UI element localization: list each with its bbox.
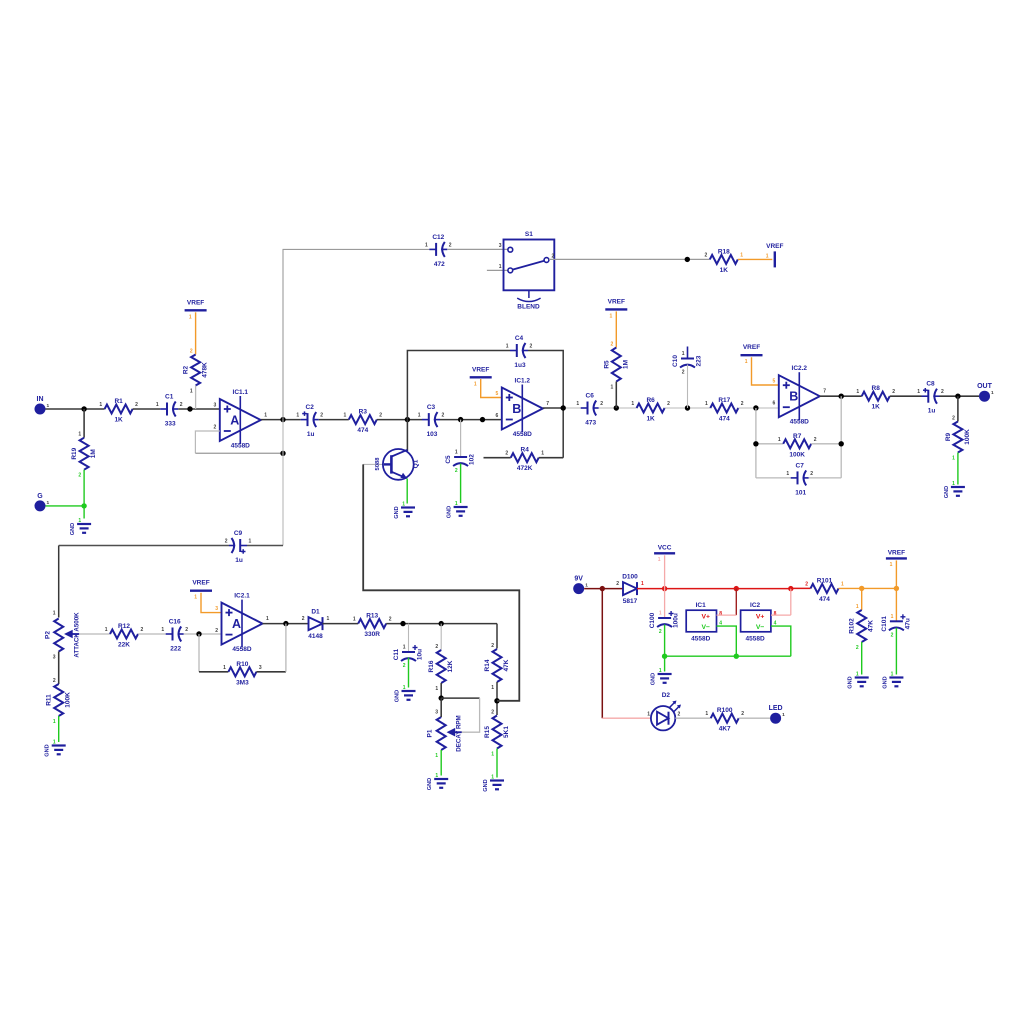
diode D100 bbox=[616, 574, 644, 606]
svg-text:1: 1 bbox=[705, 711, 708, 717]
svg-text:2: 2 bbox=[810, 471, 813, 477]
wire R15 to GND bbox=[496, 749, 498, 778]
svg-text:GND: GND bbox=[848, 676, 854, 688]
supply VREF (power) bbox=[886, 549, 907, 568]
svg-text:2: 2 bbox=[135, 402, 138, 408]
svg-text:R5: R5 bbox=[603, 360, 610, 369]
wire to R7 bbox=[756, 443, 783, 445]
svg-text:3: 3 bbox=[214, 403, 217, 409]
svg-text:2: 2 bbox=[141, 627, 144, 633]
svg-text:101: 101 bbox=[795, 489, 806, 496]
svg-text:2: 2 bbox=[892, 389, 895, 395]
wire P1 to GND bbox=[440, 750, 442, 776]
resistor R11 bbox=[46, 678, 72, 725]
op-amp IC1.2 bbox=[496, 378, 550, 439]
node collector junction bbox=[405, 417, 410, 422]
svg-text:2: 2 bbox=[379, 413, 382, 419]
svg-text:GND: GND bbox=[394, 506, 400, 518]
resistor R2 bbox=[183, 349, 209, 395]
svg-text:VREF: VREF bbox=[187, 299, 204, 306]
svg-text:1u3: 1u3 bbox=[514, 362, 526, 369]
wire rail down to IC2 V+ bbox=[790, 589, 792, 616]
ground GND C11 bbox=[395, 685, 416, 702]
wire P2 wiper to R12 bbox=[79, 633, 110, 635]
svg-text:S1: S1 bbox=[525, 231, 533, 238]
wire R7 to output column bbox=[811, 443, 841, 445]
wire IC2.1 out to D1 bbox=[263, 623, 309, 625]
wire output column down to C9 bbox=[282, 420, 284, 546]
svg-text:1: 1 bbox=[264, 413, 267, 419]
svg-text:2: 2 bbox=[530, 344, 533, 350]
node VREF junction 2 bbox=[894, 586, 899, 591]
svg-text:R3: R3 bbox=[359, 409, 368, 416]
svg-text:22K: 22K bbox=[118, 642, 130, 649]
capacitor C1 bbox=[156, 394, 183, 428]
resistor R9 bbox=[945, 416, 971, 462]
svg-text:C1: C1 bbox=[165, 394, 174, 401]
svg-text:P1: P1 bbox=[427, 729, 434, 737]
svg-text:2: 2 bbox=[53, 678, 56, 684]
supply VCC bbox=[654, 544, 675, 563]
svg-text:GND: GND bbox=[483, 779, 489, 791]
svg-text:2: 2 bbox=[435, 644, 438, 650]
svg-text:3: 3 bbox=[215, 606, 218, 612]
capacitor C100 bbox=[649, 611, 680, 636]
wire C1 to IC1.1 pin3 bbox=[178, 408, 220, 410]
svg-text:1: 1 bbox=[659, 668, 662, 674]
pad IN bbox=[35, 396, 50, 415]
svg-text:1: 1 bbox=[766, 254, 769, 260]
wire C100 to ground rail bbox=[664, 625, 666, 657]
svg-text:223: 223 bbox=[696, 355, 703, 366]
svg-text:GND: GND bbox=[882, 676, 888, 688]
pad OUT bbox=[977, 383, 994, 402]
node IC2.2 output bbox=[839, 394, 844, 399]
svg-text:1: 1 bbox=[327, 616, 330, 622]
ground GND C5 bbox=[447, 501, 468, 518]
node C1/R2 junction bbox=[187, 406, 192, 411]
svg-text:1: 1 bbox=[53, 719, 56, 725]
potentiometer P2 (ATTACK) bbox=[45, 611, 81, 661]
svg-text:1: 1 bbox=[841, 581, 844, 587]
op-amp IC2.1 bbox=[215, 593, 269, 654]
capacitor C4 bbox=[506, 335, 533, 369]
wire R11 to GND bbox=[58, 716, 60, 742]
svg-text:1: 1 bbox=[403, 685, 406, 691]
svg-text:1: 1 bbox=[455, 501, 458, 507]
svg-text:1: 1 bbox=[631, 401, 634, 407]
ground GND input bbox=[70, 518, 91, 535]
svg-text:1: 1 bbox=[99, 402, 102, 408]
svg-text:1u: 1u bbox=[235, 557, 243, 564]
wire rail down to IC1 V+ bbox=[735, 589, 737, 616]
svg-text:VCC: VCC bbox=[658, 544, 672, 551]
svg-text:47K: 47K bbox=[868, 620, 875, 632]
svg-text:2: 2 bbox=[491, 710, 494, 716]
wire envelope to Q1 base bbox=[363, 464, 519, 700]
svg-text:1K: 1K bbox=[720, 267, 729, 274]
svg-text:C7: C7 bbox=[796, 462, 805, 469]
svg-text:4558D: 4558D bbox=[513, 431, 532, 438]
svg-text:IC1: IC1 bbox=[696, 602, 707, 609]
node ground rail 1 bbox=[662, 654, 667, 659]
svg-text:103: 103 bbox=[427, 431, 438, 438]
wire IC1.1 out to C2 bbox=[261, 419, 301, 421]
svg-text:1K: 1K bbox=[646, 416, 655, 423]
svg-text:1: 1 bbox=[53, 740, 56, 746]
wire to R4 bbox=[484, 457, 511, 459]
svg-text:3: 3 bbox=[53, 655, 56, 661]
node IC2.1 inverting input bbox=[196, 631, 201, 636]
svg-text:3M3: 3M3 bbox=[236, 679, 249, 686]
svg-text:5817: 5817 bbox=[623, 598, 638, 605]
svg-text:4558D: 4558D bbox=[746, 636, 765, 643]
ground GND power bbox=[651, 668, 672, 685]
svg-text:100K: 100K bbox=[65, 692, 72, 708]
wire R5 to line bbox=[615, 382, 617, 409]
svg-text:478K: 478K bbox=[202, 362, 209, 378]
wire IC1.1 feedback bbox=[195, 431, 219, 453]
svg-text:1: 1 bbox=[856, 672, 859, 678]
wire node to C101 bbox=[895, 588, 897, 621]
wire C10 to line bbox=[687, 365, 689, 409]
wire to D2 anode bbox=[602, 717, 651, 719]
resistor R12 bbox=[105, 623, 144, 649]
svg-text:R6: R6 bbox=[646, 397, 655, 404]
svg-text:2: 2 bbox=[616, 581, 619, 587]
wire VCC rail bbox=[637, 588, 791, 590]
svg-text:1: 1 bbox=[740, 252, 743, 258]
svg-text:V−: V− bbox=[756, 624, 765, 631]
wire junction to R9 bbox=[957, 396, 959, 421]
wire C6 to R6 bbox=[599, 407, 637, 409]
node R14/R15 junction bbox=[494, 698, 499, 703]
svg-text:8: 8 bbox=[719, 611, 722, 617]
svg-text:R15: R15 bbox=[484, 726, 491, 738]
svg-text:6: 6 bbox=[773, 401, 776, 407]
wire to IC1 V+ pin 8 bbox=[717, 614, 737, 616]
svg-text:3: 3 bbox=[435, 710, 438, 716]
node IC2.1 output bbox=[283, 621, 288, 626]
supply VREF (IC2.2) bbox=[741, 344, 763, 365]
wire C3 to IC1.2 pin 6 bbox=[440, 419, 502, 421]
svg-text:1: 1 bbox=[856, 604, 859, 610]
svg-text:R101: R101 bbox=[817, 577, 833, 584]
svg-text:2: 2 bbox=[302, 616, 305, 622]
resistor R8 bbox=[856, 385, 895, 411]
svg-text:2: 2 bbox=[442, 413, 445, 419]
svg-text:C3: C3 bbox=[427, 404, 436, 411]
resistor R17 bbox=[705, 397, 744, 423]
wire R19 to GND net bbox=[83, 470, 85, 519]
svg-text:1: 1 bbox=[194, 595, 197, 601]
supply VREF (IC1.2) bbox=[470, 366, 492, 387]
wire node to R102 bbox=[861, 588, 863, 610]
wire to C6 bbox=[563, 407, 581, 409]
svg-text:1: 1 bbox=[506, 344, 509, 350]
wire IC2.2 out to R8 bbox=[820, 395, 862, 397]
svg-text:7: 7 bbox=[546, 401, 549, 407]
svg-text:B: B bbox=[512, 402, 521, 416]
svg-text:2: 2 bbox=[215, 628, 218, 634]
svg-text:D100: D100 bbox=[622, 574, 638, 581]
svg-text:P2: P2 bbox=[45, 631, 52, 639]
wire C4 to output column bbox=[528, 351, 563, 458]
svg-text:BLEND: BLEND bbox=[517, 304, 540, 311]
wire Q1 base bbox=[363, 463, 385, 465]
svg-text:1: 1 bbox=[641, 581, 644, 587]
svg-text:1: 1 bbox=[435, 753, 438, 759]
svg-text:C16: C16 bbox=[169, 619, 181, 626]
svg-text:GND: GND bbox=[447, 506, 453, 518]
capacitor C2 bbox=[296, 404, 323, 438]
svg-text:C2: C2 bbox=[306, 404, 315, 411]
wire junction to R16 bbox=[440, 624, 442, 650]
svg-text:100K: 100K bbox=[789, 451, 805, 458]
svg-text:7: 7 bbox=[823, 389, 826, 395]
svg-text:1u: 1u bbox=[307, 431, 315, 438]
pad G bbox=[35, 493, 50, 512]
node ground junction bbox=[81, 503, 86, 508]
wire junction to C5 bbox=[460, 420, 462, 457]
svg-text:GND: GND bbox=[395, 690, 401, 702]
svg-text:4148: 4148 bbox=[308, 633, 323, 640]
svg-text:222: 222 bbox=[170, 646, 181, 653]
capacitor C101 bbox=[881, 614, 912, 639]
svg-text:2: 2 bbox=[741, 401, 744, 407]
resistor R18 bbox=[705, 248, 744, 274]
resistor R101 bbox=[805, 577, 844, 603]
svg-text:1: 1 bbox=[856, 389, 859, 395]
power symbol IC2 bbox=[741, 602, 777, 643]
wire R8 to C8 bbox=[890, 395, 922, 397]
wire junction to wiper loop bbox=[441, 697, 479, 699]
wire C9 line right bbox=[247, 545, 283, 547]
supply VREF (IC2.1) bbox=[190, 580, 212, 601]
svg-text:1: 1 bbox=[53, 611, 56, 617]
svg-text:1: 1 bbox=[156, 402, 159, 408]
wire R100 to LED pad bbox=[739, 717, 770, 719]
svg-text:C4: C4 bbox=[515, 335, 524, 342]
resistor R6 bbox=[631, 397, 670, 423]
ground GND P1 bbox=[427, 773, 448, 790]
wire IN to R1 bbox=[46, 408, 105, 410]
svg-text:1: 1 bbox=[991, 390, 994, 396]
svg-text:333: 333 bbox=[165, 421, 176, 428]
resistor R4 bbox=[505, 447, 544, 473]
wire line down to R14 bbox=[496, 624, 498, 649]
wire VCC symbol to rail bbox=[664, 555, 666, 588]
svg-text:Q1: Q1 bbox=[413, 459, 420, 468]
node R7 right bbox=[839, 441, 844, 446]
svg-text:GND: GND bbox=[651, 673, 657, 685]
svg-text:1: 1 bbox=[474, 381, 477, 387]
resistor R10 bbox=[223, 661, 262, 687]
svg-text:R10: R10 bbox=[236, 661, 248, 668]
wire rail to C100 bbox=[664, 589, 666, 618]
svg-text:1: 1 bbox=[786, 471, 789, 477]
svg-text:2: 2 bbox=[891, 632, 894, 638]
wire feedback bottom bbox=[195, 452, 283, 454]
wire S1 pin 2 to R18 bbox=[549, 258, 710, 260]
svg-text:VREF: VREF bbox=[608, 298, 625, 305]
node 9V junction bbox=[600, 586, 605, 591]
wire VREF to IC2.2 pin 5 bbox=[752, 357, 779, 385]
power symbol IC1 bbox=[686, 602, 722, 643]
svg-text:8: 8 bbox=[774, 611, 777, 617]
wire up to VREF symbol bbox=[895, 560, 897, 588]
svg-text:2: 2 bbox=[667, 401, 670, 407]
svg-text:4558D: 4558D bbox=[790, 419, 809, 426]
svg-text:1M: 1M bbox=[90, 449, 97, 458]
node VCC junction 1 bbox=[662, 586, 667, 591]
svg-text:1: 1 bbox=[745, 359, 748, 365]
svg-text:4558D: 4558D bbox=[231, 443, 250, 450]
wire junction down to Q1 collector bbox=[406, 420, 408, 451]
svg-text:2: 2 bbox=[185, 627, 188, 633]
svg-text:C101: C101 bbox=[881, 616, 888, 632]
wire feedback up to output bbox=[285, 624, 287, 672]
wire C8 to OUT bbox=[940, 395, 980, 397]
wire R16 to P1 bbox=[440, 683, 442, 698]
svg-text:2: 2 bbox=[814, 437, 817, 443]
node C11 junction bbox=[400, 621, 405, 626]
svg-text:R2: R2 bbox=[183, 365, 190, 374]
svg-text:1: 1 bbox=[403, 645, 406, 651]
op-amp IC1.1 bbox=[214, 389, 268, 450]
wire R1 to C1 bbox=[133, 408, 161, 410]
svg-text:2: 2 bbox=[659, 629, 662, 635]
svg-text:A: A bbox=[230, 414, 239, 428]
svg-text:474: 474 bbox=[719, 416, 730, 423]
capacitor C9 bbox=[225, 530, 252, 564]
svg-text:1u: 1u bbox=[928, 408, 936, 415]
svg-text:9V: 9V bbox=[574, 576, 583, 583]
capacitor C16 bbox=[161, 619, 188, 653]
svg-text:1: 1 bbox=[78, 432, 81, 438]
svg-text:5: 5 bbox=[773, 379, 776, 385]
svg-text:47u: 47u bbox=[904, 618, 911, 629]
svg-text:5: 5 bbox=[496, 391, 499, 397]
svg-text:3: 3 bbox=[259, 665, 262, 671]
svg-text:C11: C11 bbox=[393, 648, 400, 660]
svg-text:1: 1 bbox=[455, 450, 458, 456]
wire IC2 V- pin 4 to ground rail bbox=[771, 626, 791, 656]
svg-text:2: 2 bbox=[705, 252, 708, 258]
svg-text:GND: GND bbox=[70, 523, 76, 535]
wire R14 to R15 bbox=[496, 682, 498, 715]
svg-text:R4: R4 bbox=[521, 447, 530, 454]
wire C12 to S1 pin 3 bbox=[447, 248, 508, 250]
wire junction to R19 bbox=[83, 409, 85, 438]
svg-text:V+: V+ bbox=[756, 614, 765, 621]
svg-text:474: 474 bbox=[819, 596, 830, 603]
svg-text:VREF: VREF bbox=[766, 243, 783, 250]
svg-text:C10: C10 bbox=[672, 355, 679, 367]
svg-text:1: 1 bbox=[585, 583, 588, 589]
svg-text:VREF: VREF bbox=[192, 580, 209, 587]
svg-text:2: 2 bbox=[403, 663, 406, 669]
svg-text:10u: 10u bbox=[417, 649, 424, 660]
svg-text:2: 2 bbox=[389, 617, 392, 623]
svg-text:VREF: VREF bbox=[472, 366, 489, 373]
wire R102 to GND bbox=[861, 642, 863, 675]
svg-text:2: 2 bbox=[741, 711, 744, 717]
ground GND C101 bbox=[882, 672, 903, 689]
svg-text:12K: 12K bbox=[447, 660, 454, 672]
resistor R102 bbox=[849, 604, 875, 651]
svg-text:1: 1 bbox=[890, 562, 893, 568]
svg-text:2: 2 bbox=[952, 416, 955, 422]
wire C2 to R3 bbox=[319, 419, 349, 421]
node input junction bbox=[81, 406, 86, 411]
resistor R5 bbox=[603, 342, 629, 391]
svg-text:1: 1 bbox=[161, 627, 164, 633]
svg-text:1: 1 bbox=[223, 665, 226, 671]
svg-text:3: 3 bbox=[499, 243, 502, 249]
node feedback junction bbox=[280, 451, 285, 456]
svg-text:2: 2 bbox=[805, 581, 808, 587]
svg-text:D1: D1 bbox=[311, 609, 320, 616]
capacitor C5 bbox=[445, 450, 476, 475]
node IC2.2 inverting input bbox=[753, 405, 758, 410]
node IC1.1 output bbox=[280, 417, 285, 422]
wire D1 to R13 bbox=[323, 623, 359, 625]
svg-text:472K: 472K bbox=[517, 465, 533, 472]
wire C7 to output column bbox=[809, 477, 842, 479]
svg-text:1: 1 bbox=[249, 539, 252, 545]
svg-text:C12: C12 bbox=[432, 234, 444, 241]
svg-text:1: 1 bbox=[491, 752, 494, 758]
node R16/P1 junction bbox=[439, 695, 444, 700]
svg-text:2: 2 bbox=[682, 370, 685, 376]
svg-text:IC2.1: IC2.1 bbox=[234, 593, 250, 600]
wire R3 to C3 bbox=[377, 419, 422, 421]
resistor R3 bbox=[344, 409, 383, 435]
svg-text:IN: IN bbox=[37, 396, 44, 403]
svg-text:R8: R8 bbox=[872, 385, 881, 392]
node VCC junction 2 bbox=[734, 586, 739, 591]
node C10 junction bbox=[685, 405, 690, 410]
wire R9 to GND bbox=[957, 453, 959, 485]
wire R6 to R17 bbox=[665, 407, 711, 409]
wire R17 to IC2.2 pin 6 bbox=[738, 407, 779, 409]
svg-text:C8: C8 bbox=[926, 381, 935, 388]
svg-text:1K: 1K bbox=[114, 417, 123, 424]
svg-text:1: 1 bbox=[491, 775, 494, 781]
resistor R100 bbox=[705, 707, 744, 733]
supply VREF (right of R18) bbox=[766, 243, 784, 267]
capacitor C12 bbox=[425, 234, 452, 268]
svg-text:1: 1 bbox=[78, 518, 81, 524]
wire to R10 bbox=[199, 671, 228, 673]
svg-text:B: B bbox=[789, 390, 798, 404]
svg-text:2: 2 bbox=[941, 389, 944, 395]
wire feedback down bbox=[198, 634, 200, 672]
ground GND Q1 bbox=[394, 502, 415, 519]
wire C11 to GND bbox=[408, 658, 410, 688]
svg-text:1: 1 bbox=[891, 672, 894, 678]
svg-text:1: 1 bbox=[105, 627, 108, 633]
supply VREF (R5) bbox=[605, 298, 627, 319]
svg-text:6: 6 bbox=[496, 413, 499, 419]
wire junction to C11 bbox=[408, 624, 410, 652]
svg-text:IC2: IC2 bbox=[750, 602, 761, 609]
svg-text:C5: C5 bbox=[445, 455, 452, 464]
node IC1.2 output bbox=[561, 405, 566, 410]
wire Q1 emitter to GND bbox=[406, 479, 408, 504]
wire VREF to IC1.2 pin 5 bbox=[481, 379, 502, 398]
